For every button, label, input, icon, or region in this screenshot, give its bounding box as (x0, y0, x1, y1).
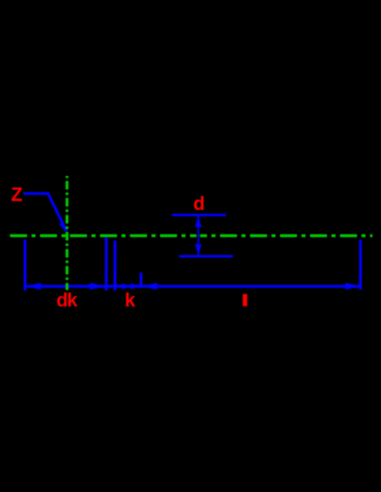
svg-text:k: k (125, 291, 136, 312)
svg-text:d: d (193, 194, 205, 215)
svg-text:dk: dk (56, 291, 78, 312)
svg-text:Z: Z (11, 185, 23, 206)
